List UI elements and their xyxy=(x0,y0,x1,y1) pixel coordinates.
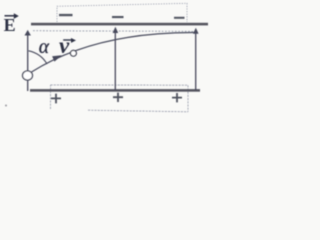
minus sign 3 xyxy=(174,17,185,19)
svg-text:α: α xyxy=(39,37,50,58)
speck bottom-left xyxy=(5,105,7,107)
minus sign 2 xyxy=(112,16,124,18)
dotted guide line at arrow tips level xyxy=(33,30,193,33)
top plate outline xyxy=(57,3,187,22)
particle xyxy=(23,71,33,80)
plus sign 2 xyxy=(113,93,123,102)
bottom plate line xyxy=(30,89,200,92)
top plate line xyxy=(31,23,208,26)
field arrow left (through particle) xyxy=(27,32,29,91)
minus sign 1 xyxy=(59,14,73,16)
velocity vector v0 arrowhead xyxy=(52,53,63,62)
angle arc alpha xyxy=(29,51,47,64)
svg-text:v: v xyxy=(59,33,70,58)
bottom plate outline xyxy=(51,85,189,112)
bottom plate outline bottom edge xyxy=(88,110,188,112)
field arrow middle xyxy=(114,29,116,90)
plus sign 3 xyxy=(172,93,182,102)
plus sign 1 xyxy=(51,94,61,104)
trajectory curve xyxy=(32,32,196,72)
field arrow right xyxy=(195,30,197,90)
